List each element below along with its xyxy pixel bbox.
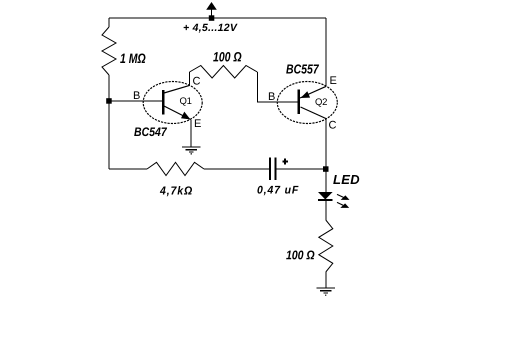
wire R4 to ground (325, 272, 327, 288)
pin label C (Q1) (193, 77, 200, 85)
value label 1 MΩ (120, 53, 145, 63)
part label BC547 (134, 127, 167, 136)
transistor Q1 BC547 (143, 82, 202, 124)
wire R2 to Q2 base (257, 72, 297, 102)
capacitor C1 0,47 uF (270, 158, 288, 181)
pin label E (Q2) (330, 76, 336, 84)
pin label B (Q2) (269, 92, 275, 100)
ground (Q1 emitter) (182, 120, 201, 155)
resistor R1 1 MΩ (102, 27, 116, 75)
transistor Q2 BC557 (277, 82, 337, 124)
node junction at Q1 base (106, 98, 112, 104)
node junction (LED anode) (323, 166, 329, 172)
power supply arrow (206, 2, 217, 17)
value label 4,7kΩ (160, 186, 192, 196)
resistor R4 100 Ω (319, 220, 333, 272)
wire R3 to C1 (204, 168, 270, 170)
LED light arrows (337, 194, 350, 208)
wire node to LED (325, 169, 327, 192)
value label 0,47 uF (257, 186, 298, 195)
ground (below R4) (317, 288, 336, 296)
wire Q1 base (109, 100, 162, 102)
wire right rail to Q2 emitter (325, 18, 327, 87)
wire Q2 collector down (325, 119, 327, 170)
wire C1 to node (276, 168, 326, 170)
junction (power tap) (209, 15, 215, 20)
designator Q2 (315, 98, 327, 106)
wire top rail (109, 17, 326, 19)
value label + 4,5...12V (184, 24, 238, 33)
designator Q1 (180, 97, 192, 105)
LED diode symbol (318, 192, 333, 200)
resistor R2 100 Ω (190, 66, 258, 79)
wire left rail lower (108, 75, 110, 169)
pin label B (Q1) (134, 91, 140, 99)
resistor R3 4,7kΩ (147, 162, 204, 175)
pin label C (Q2) (329, 121, 336, 129)
value label LED (333, 175, 359, 184)
wire bottom left (109, 168, 147, 170)
value label 100 Ω (top) (213, 52, 241, 62)
pin label E (Q1) (195, 119, 201, 127)
part label BC557 (286, 64, 319, 73)
wire left rail upper (108, 18, 110, 27)
wire LED to R4 (325, 200, 327, 220)
value label 100 Ω (bottom) (286, 251, 314, 260)
wire Q1 collector up (189, 72, 191, 86)
